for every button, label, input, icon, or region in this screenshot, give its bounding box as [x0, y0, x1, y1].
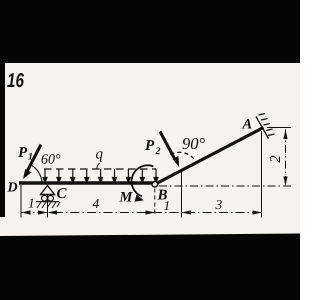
moment M arrowhead [135, 194, 144, 201]
moment M arc [132, 165, 154, 196]
svg-text:60°: 60° [41, 153, 61, 168]
svg-text:C: C [57, 186, 68, 202]
extension line below B (dashed) [154, 189, 156, 216]
support A wall line [256, 117, 269, 139]
60 degree arc [31, 165, 42, 183]
svg-text:q: q [96, 147, 104, 163]
90 degree arc [170, 152, 196, 162]
force P1 [27, 145, 41, 172]
bottom black scan band [0, 234, 300, 300]
dimension arrowheads bottom [21, 210, 262, 214]
support A hatching [259, 114, 275, 136]
svg-text:2: 2 [155, 146, 161, 157]
roller support C: triangle [41, 186, 55, 195]
svg-text:A: A [242, 117, 253, 133]
svg-text:1: 1 [28, 152, 33, 163]
svg-text:P: P [145, 138, 155, 154]
bottom dimension line [21, 212, 262, 214]
beam D-B [19, 181, 154, 184]
pin B circle [152, 182, 158, 188]
ground hatching under C [37, 202, 60, 208]
vertical dimension line 2 [285, 130, 287, 187]
bar B-A [156, 128, 264, 185]
force P2 [160, 132, 175, 160]
distributed load arrows [43, 169, 158, 183]
roller circles [42, 195, 48, 201]
distributed load q dashed top line [44, 168, 156, 170]
svg-text:D: D [7, 181, 18, 196]
vertical dimension arrowheads [283, 130, 287, 187]
svg-text:1: 1 [164, 198, 171, 213]
extension line at D [20, 185, 22, 218]
left black scan strip [0, 63, 5, 217]
svg-text:3: 3 [215, 197, 223, 212]
extension line at C [47, 195, 49, 218]
svg-text:2: 2 [268, 155, 284, 163]
svg-text:16: 16 [7, 70, 25, 92]
svg-text:P: P [18, 145, 28, 161]
extension line at A level [267, 127, 291, 129]
svg-text:1: 1 [28, 196, 35, 211]
top black scan band [0, 0, 300, 63]
q leader line [97, 163, 100, 169]
svg-text:M: M [119, 190, 134, 206]
ground line under C [36, 201, 59, 203]
svg-text:90°: 90° [182, 134, 206, 153]
extension line at B level (dash-dot) [159, 185, 291, 187]
extension line below A [261, 131, 263, 218]
svg-text:4: 4 [93, 196, 100, 211]
extension line right of B [181, 172, 183, 218]
